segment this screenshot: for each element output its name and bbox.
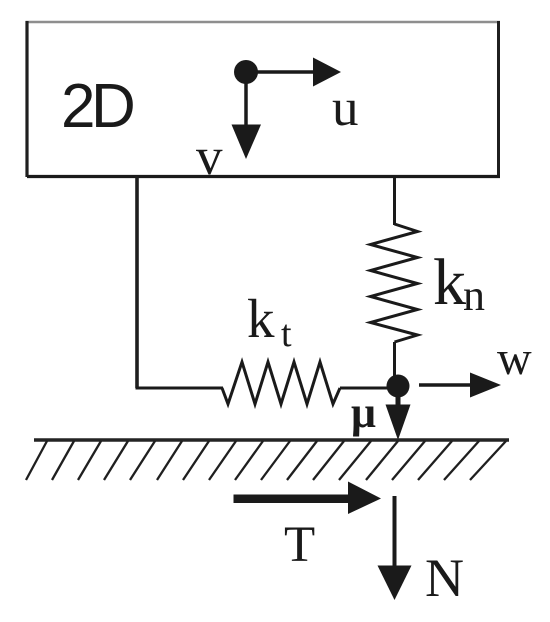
ground hatching	[26, 441, 506, 480]
wire v-arrow shaft	[244, 72, 248, 128]
svg-text:v: v	[196, 128, 223, 186]
node contact point	[387, 375, 410, 398]
svg-text:μ: μ	[351, 388, 376, 437]
wire u-arrow shaft	[246, 70, 316, 74]
node body-frame origin	[234, 60, 258, 84]
svg-text:k: k	[247, 288, 275, 349]
ground line	[34, 438, 509, 441]
wire from spring kn to node	[393, 342, 396, 386]
N-arrow head	[378, 566, 412, 601]
T-arrow head	[348, 482, 381, 515]
wire w-arrow shaft	[419, 383, 476, 387]
u-arrow head	[313, 58, 341, 87]
svg-text:u: u	[332, 79, 359, 137]
wire from spring kt to node	[340, 387, 398, 390]
svg-text:w: w	[497, 332, 532, 385]
N-arrow shaft	[393, 496, 397, 567]
wire from block to spring kn	[393, 176, 396, 225]
svg-text:T: T	[284, 517, 315, 573]
body block 2D	[26, 21, 501, 177]
mu-arrow shaft	[396, 386, 401, 406]
svg-text:N: N	[425, 548, 464, 608]
svg-text:D: D	[91, 72, 136, 141]
wire horizontal to spring kt	[136, 387, 224, 390]
svg-text:n: n	[463, 271, 485, 320]
v-arrow head	[232, 125, 262, 160]
spring kt	[222, 362, 340, 404]
spring kn	[371, 224, 418, 342]
svg-text:t: t	[281, 313, 292, 355]
svg-text:k: k	[433, 246, 466, 319]
wire left drop from block	[135, 176, 139, 388]
w-arrow head	[470, 373, 501, 398]
mu-arrow head	[386, 405, 411, 441]
T-arrow shaft	[234, 495, 353, 504]
